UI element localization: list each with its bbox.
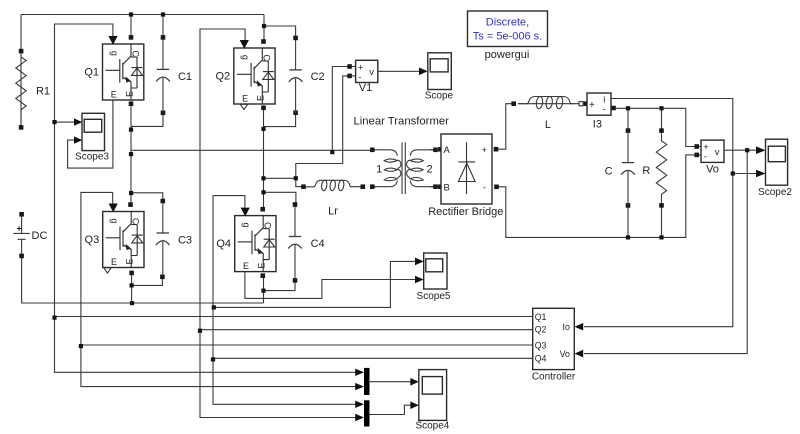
svg-text:powergui: powergui bbox=[485, 49, 530, 61]
svg-text:Vo: Vo bbox=[560, 349, 570, 359]
svg-text:Q1: Q1 bbox=[84, 67, 99, 79]
svg-text:C4: C4 bbox=[311, 238, 325, 250]
svg-text:Discrete,: Discrete, bbox=[486, 17, 529, 29]
svg-text:B: B bbox=[444, 183, 450, 194]
svg-text:1: 1 bbox=[376, 164, 382, 176]
svg-text:C3: C3 bbox=[178, 235, 192, 247]
svg-text:Q4: Q4 bbox=[216, 238, 231, 250]
svg-text:R1: R1 bbox=[36, 86, 50, 98]
svg-text:I3: I3 bbox=[593, 119, 602, 131]
svg-text:L: L bbox=[545, 119, 551, 131]
svg-text:Q1: Q1 bbox=[535, 312, 547, 322]
svg-text:C: C bbox=[605, 166, 613, 178]
svg-text:DC: DC bbox=[32, 230, 48, 242]
svg-text:A: A bbox=[444, 145, 451, 156]
svg-text:2: 2 bbox=[426, 164, 432, 176]
svg-text:Q4: Q4 bbox=[535, 354, 547, 364]
svg-text:+: + bbox=[589, 100, 595, 111]
svg-text:Ts = 5e-006 s.: Ts = 5e-006 s. bbox=[473, 31, 542, 43]
svg-text:Rectifier Bridge: Rectifier Bridge bbox=[428, 206, 503, 218]
svg-text:Lr: Lr bbox=[328, 206, 338, 218]
svg-text:R: R bbox=[642, 165, 650, 177]
svg-text:Q2: Q2 bbox=[215, 71, 230, 83]
svg-text:Q2: Q2 bbox=[535, 325, 547, 335]
svg-text:Scope3: Scope3 bbox=[75, 152, 109, 163]
svg-text:+: + bbox=[482, 145, 488, 156]
svg-text:Scope4: Scope4 bbox=[415, 421, 449, 432]
svg-text:-: - bbox=[704, 152, 707, 163]
svg-text:Scope: Scope bbox=[425, 90, 454, 101]
svg-text:Controller: Controller bbox=[532, 372, 576, 383]
svg-text:C2: C2 bbox=[311, 71, 325, 83]
svg-text:Scope5: Scope5 bbox=[417, 291, 451, 302]
svg-text:Io: Io bbox=[563, 322, 570, 332]
svg-text:Q3: Q3 bbox=[85, 234, 100, 246]
svg-text:-: - bbox=[483, 183, 486, 194]
svg-text:Q3: Q3 bbox=[535, 340, 547, 350]
svg-text:V1: V1 bbox=[359, 82, 372, 94]
svg-text:C1: C1 bbox=[178, 71, 192, 83]
svg-text:Scope2: Scope2 bbox=[758, 187, 792, 198]
svg-text:Vo: Vo bbox=[706, 164, 719, 176]
svg-text:v: v bbox=[715, 147, 720, 158]
svg-text:+: + bbox=[17, 223, 22, 233]
svg-text:-: - bbox=[603, 104, 606, 115]
svg-text:v: v bbox=[369, 67, 374, 78]
svg-text:Linear Transformer: Linear Transformer bbox=[353, 116, 449, 128]
